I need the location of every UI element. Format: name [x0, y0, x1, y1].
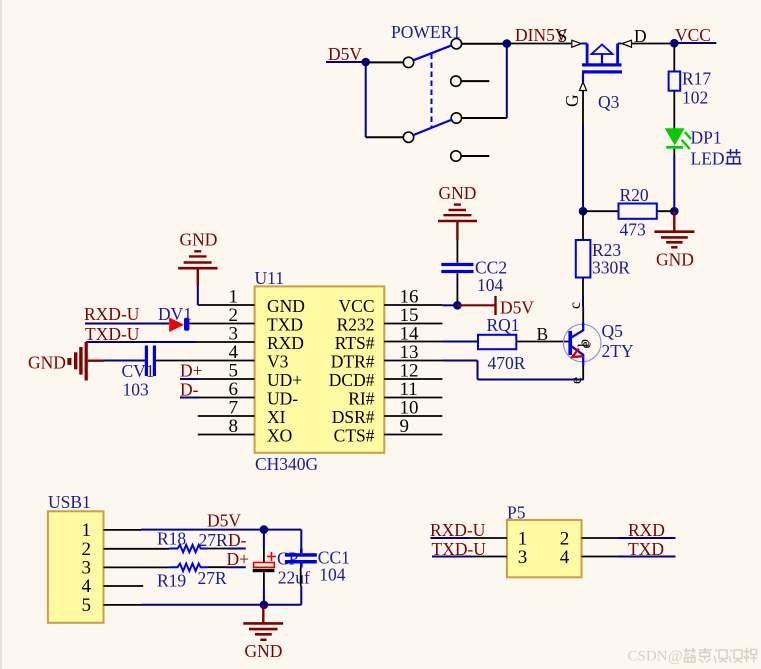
- P5 designator: [507, 503, 526, 523]
- svg-text:@: @: [668, 648, 683, 665]
- svg-text:U11: U11: [255, 268, 285, 288]
- wire vertical DIN5V: [506, 43, 508, 118]
- wire switch pin3 to vertical: [462, 117, 507, 119]
- net label D-: [180, 380, 199, 400]
- resistor R19 zigzag: [169, 564, 208, 571]
- USB1 pin 1: [104, 529, 142, 531]
- junction dot R20 left: [579, 207, 588, 216]
- wire Q5 collector up: [582, 307, 584, 323]
- svg-text:DP1: DP1: [691, 128, 722, 148]
- LED DV1: [169, 318, 189, 333]
- ground GND above CC2: [438, 183, 477, 240]
- svg-text:TXD: TXD: [628, 539, 664, 559]
- svg-text:LED: LED: [691, 149, 725, 169]
- svg-text:e: e: [578, 341, 595, 348]
- svg-text:G: G: [562, 94, 582, 107]
- svg-text:2TY: 2TY: [602, 341, 634, 361]
- CC1 designator: [318, 548, 350, 568]
- U11 left pin labels: [267, 296, 305, 446]
- net label D5V: [328, 44, 362, 64]
- capacitor CC2: [441, 263, 473, 273]
- U11 right pin numbers: [400, 287, 420, 438]
- net label TXD-U: [432, 539, 487, 559]
- pin name G rotated: [562, 94, 582, 107]
- svg-text:D+: D+: [227, 549, 250, 569]
- svg-text:D5V: D5V: [207, 511, 241, 531]
- U11 pin 13: [384, 360, 442, 362]
- U11 pin 2: [189, 323, 255, 325]
- net label VCC: [675, 25, 711, 45]
- DP1 designator: [691, 128, 722, 148]
- wire RXD-U to DV1: [85, 323, 169, 325]
- svg-text:Q5: Q5: [602, 321, 624, 341]
- wire CE bottom lead: [263, 572, 265, 586]
- switch stub pin2: [461, 80, 489, 82]
- wire D-: [180, 397, 199, 399]
- wire CC1 top lead: [300, 530, 302, 549]
- R19 designator: [157, 571, 186, 591]
- U11 pin 12: [384, 378, 442, 380]
- resistor R18 zigzag: [169, 545, 208, 552]
- U11 pin 15: [384, 323, 442, 325]
- wire CE top lead: [263, 530, 265, 549]
- net label TXD: [628, 539, 664, 559]
- svg-text:22uf: 22uf: [278, 568, 310, 588]
- svg-text:470R: 470R: [488, 353, 526, 373]
- svg-text:CSDN: CSDN: [628, 649, 668, 665]
- wire pin16 to junction: [442, 304, 457, 306]
- wire junction to R23: [582, 211, 584, 240]
- svg-text:GND: GND: [245, 641, 283, 661]
- U11 right pin labels: [329, 296, 375, 446]
- pin name e rotated: [568, 377, 585, 384]
- junction dot DIN5V: [503, 39, 512, 48]
- capacitor CE polarized: [253, 552, 276, 572]
- svg-text:c: c: [567, 302, 584, 309]
- svg-text:R20: R20: [620, 185, 649, 205]
- R17 designator: [682, 69, 711, 89]
- junction dot VCC: [670, 39, 679, 48]
- svg-text:V3: V3: [267, 352, 289, 372]
- pin name D: [634, 26, 647, 46]
- net label RXD: [628, 520, 665, 540]
- ground GND sideways: [28, 342, 104, 381]
- wire R18 to D-: [208, 548, 226, 550]
- svg-text:27R: 27R: [199, 530, 229, 550]
- USB1 pin numbers: [82, 520, 92, 616]
- svg-text:RXD: RXD: [267, 333, 304, 353]
- connector USB1 body: [48, 511, 104, 623]
- wire pin1 to D5V junction: [141, 529, 301, 531]
- watermark: [628, 648, 683, 665]
- Q5 designator: [602, 321, 624, 341]
- junction dot D5V: [260, 525, 269, 534]
- USB1 pin 4 stub: [104, 585, 144, 587]
- svg-text:CTS#: CTS#: [334, 426, 375, 446]
- wire VCC: [674, 42, 716, 44]
- R23 designator: [592, 240, 621, 260]
- U11 pin 6: [199, 397, 255, 399]
- svg-text:D-: D-: [228, 530, 247, 550]
- wire P5 pin2 to RXD: [582, 537, 676, 539]
- wire junction down: [365, 62, 367, 137]
- R23 value 330R: [592, 258, 630, 278]
- U11 pin 1: [198, 304, 255, 306]
- wire D5V to junction: [326, 61, 366, 63]
- svg-text:DSR#: DSR#: [332, 407, 375, 427]
- wire R23 to Q5 collector: [582, 278, 584, 308]
- junction dot GND: [260, 601, 269, 610]
- CC1 value 104: [319, 565, 346, 585]
- CE designator: [277, 549, 299, 569]
- DV1 designator: [158, 304, 192, 324]
- svg-text:USB1: USB1: [48, 492, 91, 512]
- Q3 source arrow: [572, 40, 582, 47]
- U11 pin 7: [198, 415, 255, 417]
- net label RXD-U: [430, 520, 486, 540]
- RQ1 designator: [487, 315, 520, 335]
- Q3 gate arrow: [579, 82, 586, 91]
- CC2 designator: [475, 258, 507, 278]
- svg-text:R17: R17: [682, 69, 711, 89]
- wire VCC dot to R17: [673, 43, 675, 71]
- net label D+: [180, 361, 203, 381]
- svg-text:RQ1: RQ1: [487, 315, 520, 335]
- junction dot D5V: [361, 58, 370, 67]
- svg-text:XO: XO: [267, 426, 292, 446]
- wire Q3 drain to VCC: [632, 43, 672, 45]
- svg-text:B: B: [537, 324, 549, 344]
- R18 designator: [157, 529, 186, 549]
- svg-text:4: 4: [560, 547, 570, 568]
- capacitor CC1: [285, 548, 317, 567]
- USB1 pin 5: [104, 604, 142, 606]
- P5 pin numbers: [518, 529, 570, 569]
- svg-text:103: 103: [123, 380, 150, 400]
- svg-text:R232: R232: [337, 315, 375, 335]
- wire pin14 to RQ1: [442, 341, 478, 343]
- CV1 designator: [122, 361, 155, 381]
- U11 pin 16: [384, 304, 442, 306]
- svg-text:GND: GND: [180, 230, 218, 250]
- junction dot below DP1: [670, 207, 679, 216]
- svg-text:330R: 330R: [592, 258, 630, 278]
- connector P5 body: [507, 520, 582, 577]
- svg-text:DCD#: DCD#: [329, 370, 375, 390]
- USB1 pin 3: [104, 566, 170, 568]
- transistor Q5: [563, 323, 601, 367]
- Q5 value 2TY: [602, 341, 634, 361]
- R20 value 473: [620, 220, 647, 240]
- wire GND to CV1: [104, 360, 145, 362]
- svg-text:TXD: TXD: [267, 315, 303, 335]
- capacitor CV1: [145, 346, 156, 377]
- ground GND above pin1: [178, 230, 218, 287]
- wire GND down to pin1: [197, 286, 199, 305]
- U11 pin 5: [199, 378, 255, 380]
- svg-text:S: S: [558, 26, 568, 46]
- svg-text:RTS#: RTS#: [335, 333, 375, 353]
- IC U11 body: [255, 286, 385, 452]
- svg-text:UD+: UD+: [267, 370, 302, 390]
- wire Q5 emitter down: [582, 366, 584, 380]
- pin name b rotated: [576, 339, 593, 347]
- svg-text:VCC: VCC: [339, 296, 375, 316]
- DP1 value LED蓝: [691, 149, 742, 169]
- net label D5V: [207, 511, 241, 531]
- net label TXD-U: [85, 324, 140, 344]
- svg-text:RXD-U: RXD-U: [84, 304, 140, 324]
- svg-text:5: 5: [82, 595, 92, 616]
- left edge strip: [0, 0, 2, 669]
- wire DP1 to junction: [673, 149, 675, 156]
- wire junction to R20: [583, 210, 619, 212]
- wire switch pin1 to DIN5V junction: [462, 43, 503, 45]
- svg-text:R18: R18: [157, 529, 186, 549]
- RQ1 value 470R: [488, 353, 526, 373]
- net label D-: [228, 530, 247, 550]
- U11 pin 11: [384, 397, 442, 399]
- svg-text:GND: GND: [267, 296, 305, 316]
- svg-text:473: 473: [620, 220, 647, 240]
- USB1 pin 2: [104, 548, 170, 550]
- wire to lower switch pin: [366, 136, 403, 138]
- CV1 value 103: [123, 380, 150, 400]
- wire CC2 down to pin16 junction: [456, 273, 458, 305]
- switch stub pin4: [461, 155, 489, 157]
- wire D+: [180, 378, 199, 380]
- svg-text:102: 102: [682, 88, 708, 108]
- svg-text:GND: GND: [439, 183, 477, 203]
- wire TXD-U to P5 pin3: [432, 556, 507, 558]
- USB1 designator: [48, 492, 91, 512]
- ground GND right: [654, 211, 694, 269]
- wire P5 pin4 to TXD: [582, 556, 676, 558]
- U11 designator: [255, 268, 285, 288]
- U11 pin 4: [156, 360, 255, 362]
- resistor R20: [619, 204, 657, 219]
- svg-text:CV1: CV1: [122, 361, 155, 381]
- wire TXD-U to pin3: [86, 341, 196, 343]
- wire DIN5V to Q3 source: [507, 43, 571, 45]
- Q3 gate pin wire: [582, 91, 584, 126]
- LED DP1: [665, 128, 691, 149]
- resistor R17: [669, 72, 681, 91]
- svg-text:27R: 27R: [198, 568, 228, 588]
- pin name e rotated (overlapping): [578, 341, 595, 348]
- net label DIN5V: [515, 25, 568, 45]
- R17 value 102: [682, 88, 708, 108]
- R18 value 27R: [199, 530, 229, 550]
- U11 pin 3: [196, 341, 255, 343]
- wire CC1 bottom lead: [300, 568, 302, 587]
- pin name S: [558, 26, 568, 46]
- wire R20 to junction: [657, 210, 675, 212]
- svg-text:GND: GND: [656, 250, 694, 270]
- svg-text:RXD: RXD: [628, 520, 665, 540]
- power port D5V at pin16: [457, 296, 534, 318]
- svg-text:R19: R19: [157, 571, 186, 591]
- U11 pin 10: [384, 415, 442, 417]
- junction dot pin16: [453, 301, 462, 310]
- switch POWER1 body: [403, 39, 461, 162]
- svg-text:CP: CP: [277, 549, 299, 569]
- Q3 body: [582, 44, 623, 83]
- net label D+: [227, 549, 250, 569]
- ground GND bottom: [243, 605, 283, 661]
- R19 value 27R: [198, 568, 228, 588]
- wire emitter to pin13: [442, 361, 583, 380]
- U11 pin 14: [384, 341, 442, 343]
- U11 pin 8: [198, 434, 255, 436]
- Q3 designator: [598, 92, 620, 112]
- wire R17 to DP1: [673, 91, 675, 129]
- pin name B: [537, 324, 549, 344]
- resistor R23: [576, 240, 591, 278]
- R20 designator: [620, 185, 649, 205]
- svg-text:Q3: Q3: [598, 92, 620, 112]
- switch POWER1 designator: [391, 22, 461, 42]
- resistor RQ1: [478, 335, 516, 349]
- svg-text:3: 3: [518, 547, 528, 568]
- svg-text:XI: XI: [267, 407, 286, 427]
- svg-text:4: 4: [82, 576, 92, 597]
- U11 left pin numbers: [229, 287, 239, 438]
- wire RXD-U to P5 pin1: [431, 537, 508, 539]
- svg-text:CH340G: CH340G: [255, 454, 319, 474]
- svg-text:104: 104: [477, 275, 504, 295]
- U11 value CH340G: [255, 454, 319, 474]
- wire gate down to junction: [582, 125, 584, 208]
- svg-text:D+: D+: [180, 361, 203, 381]
- wire R19 to D+: [208, 566, 226, 568]
- wire GND to CC2: [456, 240, 458, 263]
- svg-text:UD-: UD-: [267, 389, 298, 409]
- U11 pin 9: [384, 434, 442, 436]
- svg-text:POWER1: POWER1: [391, 22, 461, 42]
- svg-text:RI#: RI#: [348, 389, 375, 409]
- svg-text:DTR#: DTR#: [331, 352, 375, 372]
- CE value 22uf: [278, 568, 310, 588]
- CC2 value 104: [477, 275, 504, 295]
- pin name c rotated: [567, 302, 584, 309]
- svg-text:GND: GND: [28, 353, 66, 373]
- svg-text:104: 104: [319, 565, 346, 585]
- net label RXD-U: [84, 304, 140, 324]
- wire RQ1 to Q5 base: [516, 341, 568, 343]
- Q3 drain arrow: [622, 40, 632, 47]
- wire junction to switch pin: [366, 61, 403, 63]
- wire pin5 to GND junction: [141, 604, 301, 606]
